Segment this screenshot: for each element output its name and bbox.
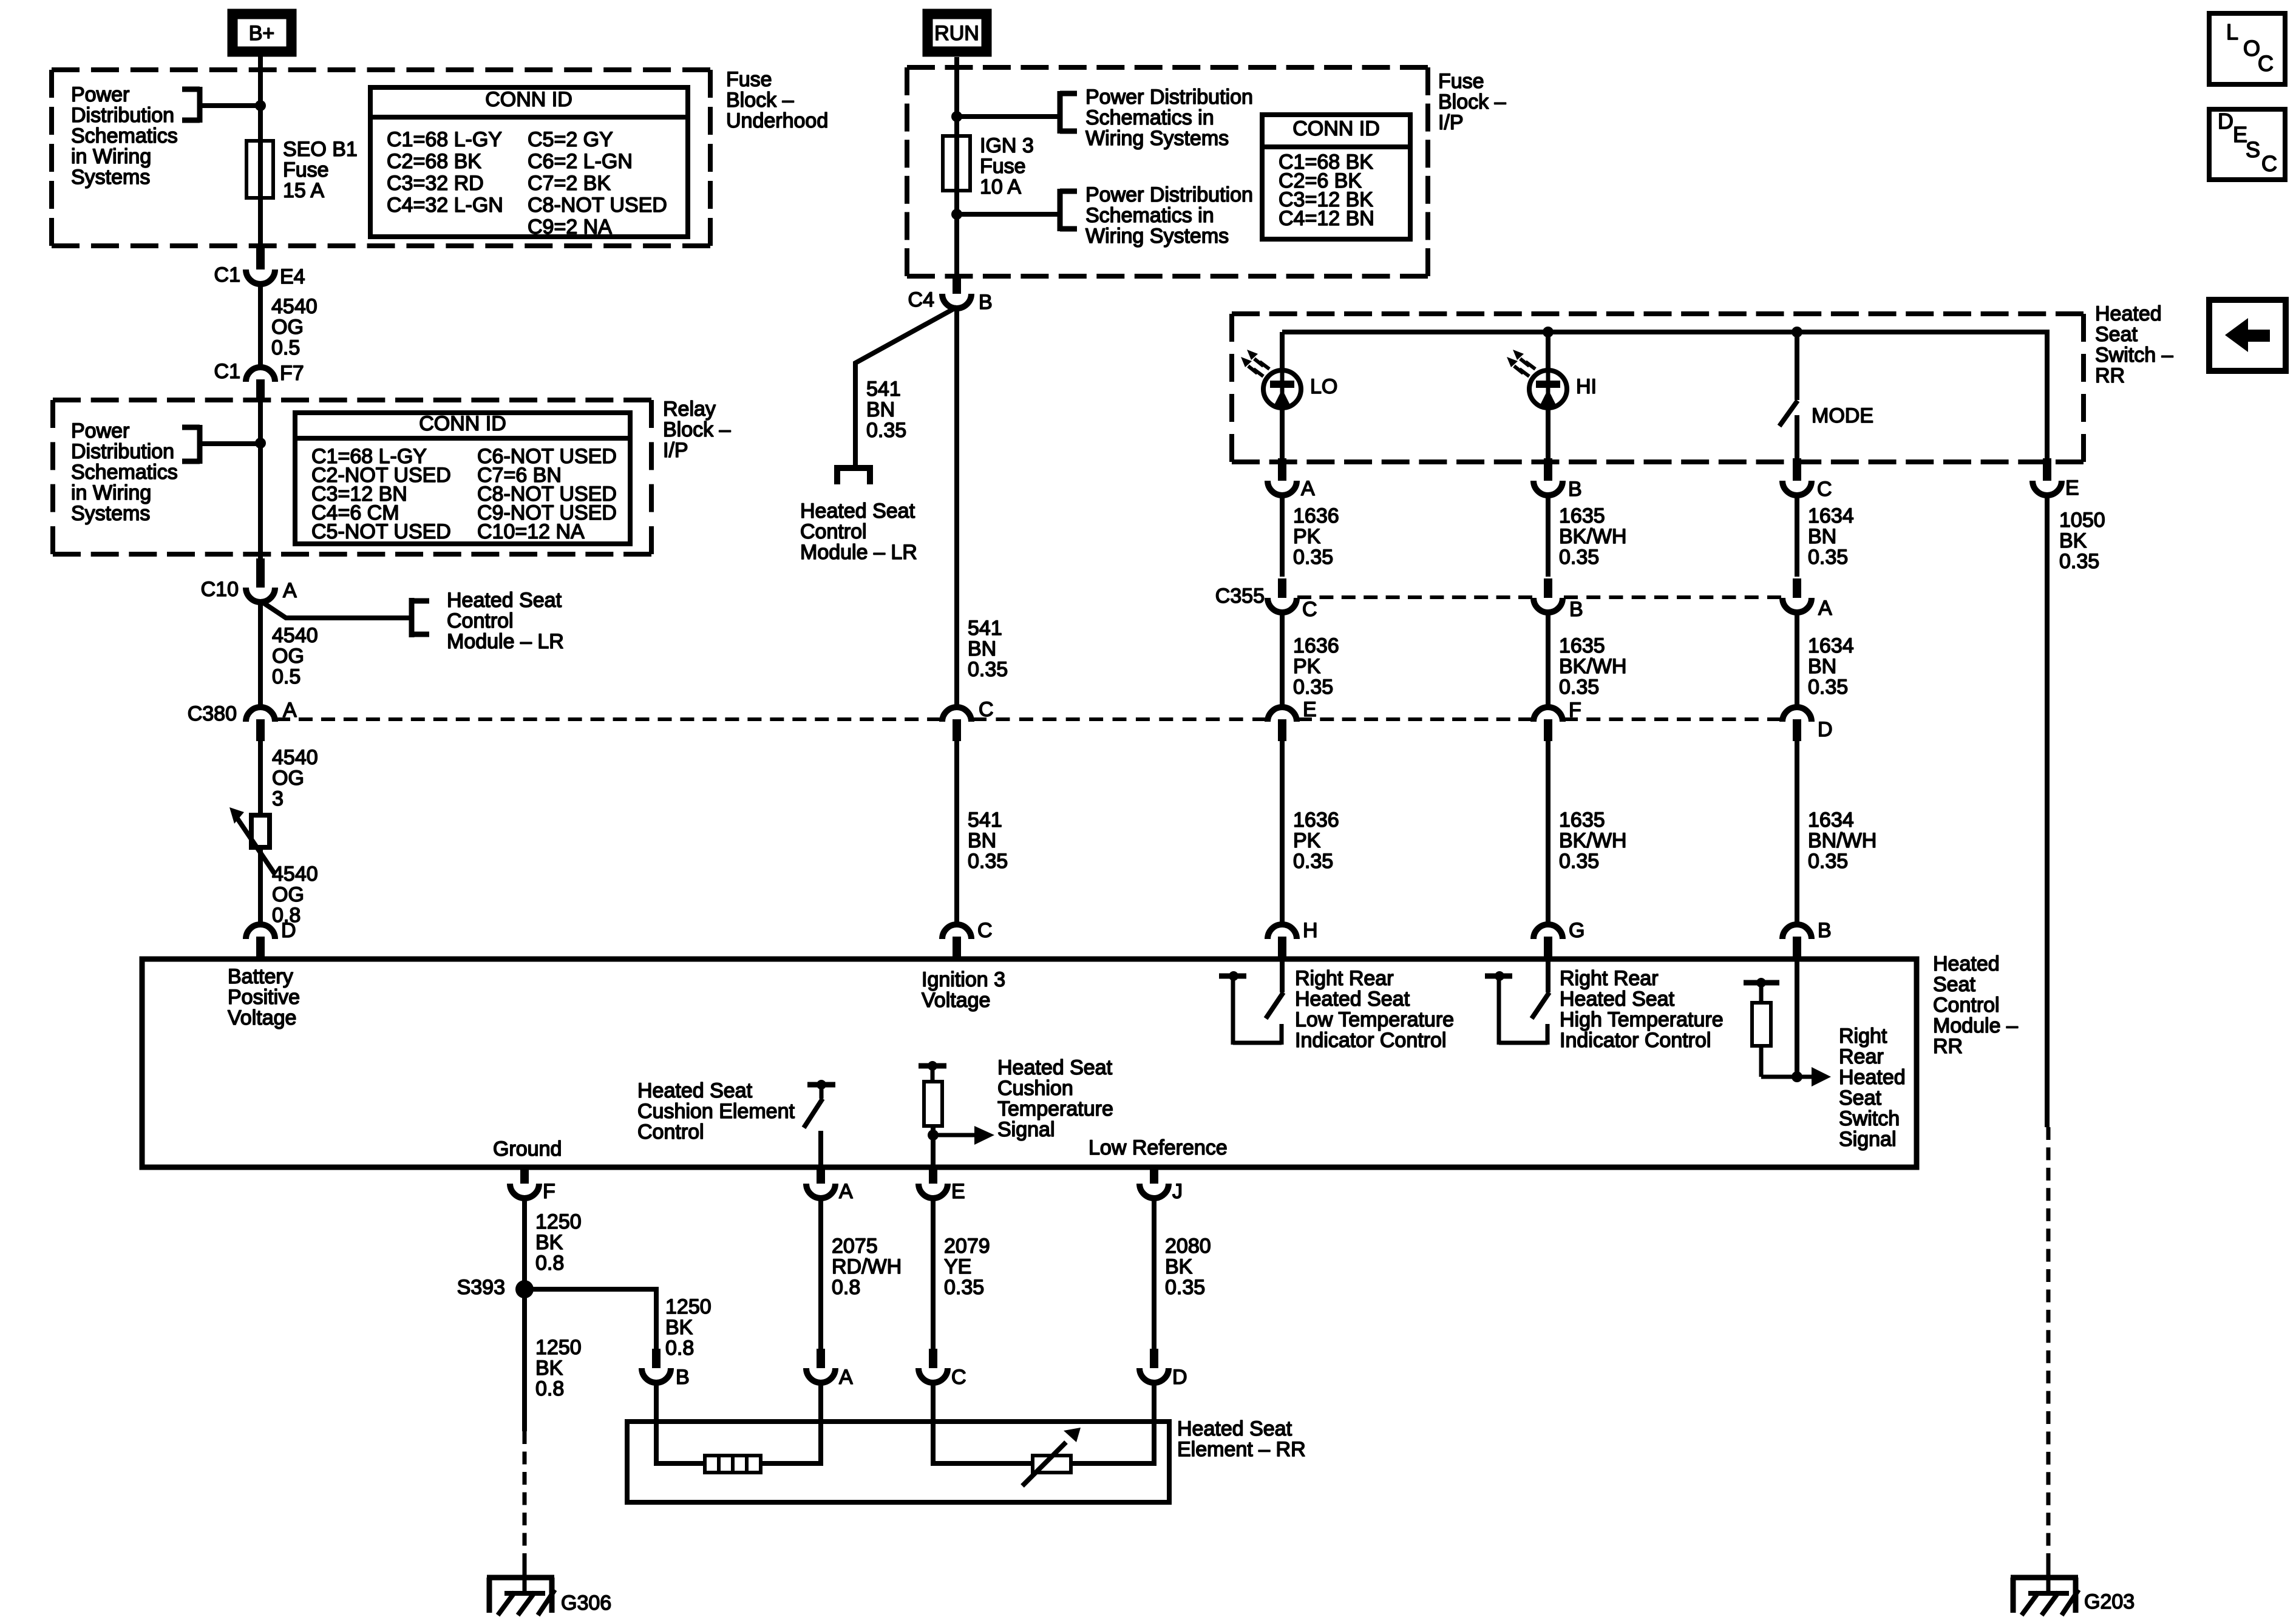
dashed box Heated Seat Switch - RR	[1232, 314, 2084, 462]
bracket Power Distribution (lower I/P)	[1060, 189, 1077, 231]
label C355	[1215, 585, 1265, 608]
svg-text:LO: LO	[1310, 375, 1337, 398]
switch heated seat cushion element control	[804, 1080, 835, 1128]
wire to power-distribution bracket (upper I/P)	[957, 114, 1060, 119]
svg-text:Seat: Seat	[2095, 323, 2138, 346]
svg-text:C8-NOT USED: C8-NOT USED	[528, 194, 667, 217]
svg-text:B: B	[1568, 478, 1582, 501]
label A (at C380)	[283, 699, 297, 722]
label Right Rear Heated Seat Switch Signal	[1839, 1025, 1906, 1151]
label A (element)	[839, 1366, 853, 1389]
svg-text:in Wiring: in Wiring	[71, 481, 151, 504]
svg-text:C2=68 BK: C2=68 BK	[387, 150, 481, 173]
label IGN 3 Fuse 10 A	[980, 134, 1034, 198]
diagonal wire C4 to module-LR stub	[855, 307, 957, 465]
wire E down right side	[2045, 494, 2050, 1127]
svg-text:B: B	[1569, 598, 1583, 621]
connector F (module ground)	[510, 1167, 539, 1198]
svg-text:1636: 1636	[1293, 634, 1339, 657]
svg-text:C1: C1	[214, 263, 240, 286]
label 1636 PK 0.35 (to module)	[1293, 808, 1339, 873]
svg-text:Rear: Rear	[1839, 1045, 1884, 1068]
svg-text:0.35: 0.35	[1559, 850, 1599, 873]
label S393	[457, 1276, 505, 1299]
label SEO B1 Fuse 15 A	[283, 138, 358, 202]
ground G306	[487, 1566, 555, 1615]
svg-text:2079: 2079	[944, 1235, 990, 1258]
svg-text:C5=2 GY: C5=2 GY	[528, 128, 613, 151]
svg-text:C10: C10	[201, 578, 239, 601]
wire element C lead	[933, 1381, 1033, 1463]
label D (module top)	[281, 919, 296, 942]
svg-text:PK: PK	[1293, 829, 1321, 852]
connector D (module battery feed)	[246, 924, 275, 961]
ground G203	[2011, 1566, 2079, 1615]
svg-text:BK: BK	[535, 1231, 563, 1254]
svg-text:1250: 1250	[535, 1210, 582, 1233]
svg-text:Block –: Block –	[663, 418, 731, 441]
wire C355-C to connector E	[1280, 611, 1285, 710]
svg-text:Temperature: Temperature	[997, 1097, 1113, 1120]
label 1636 PK 0.35 (switch-C355)	[1293, 504, 1339, 569]
resistor cushion temperature sensor	[924, 1066, 942, 1126]
connector C355 A	[1782, 578, 1812, 612]
label E (module bottom)	[951, 1180, 965, 1203]
label Power Distribution Schematics in Wiring Systems (underhood)	[71, 83, 178, 189]
connector G (module top)	[1533, 924, 1563, 961]
label H (module top)	[1303, 919, 1318, 942]
label 2080 BK 0.35	[1165, 1235, 1211, 1299]
wire B+ to SEO B1 fuse	[258, 56, 263, 141]
svg-text:Module – LR: Module – LR	[447, 630, 564, 653]
wire C355-A to connector D	[1795, 611, 1799, 710]
svg-text:C1: C1	[214, 360, 240, 383]
svg-text:G: G	[1569, 919, 1584, 942]
label Heated Seat Element - RR	[1177, 1417, 1306, 1461]
svg-text:Cushion Element: Cushion Element	[637, 1100, 795, 1123]
dashed box Fuse Block - Underhood	[52, 70, 710, 246]
label C1 (at F7)	[214, 360, 240, 383]
connector C10 A	[246, 558, 275, 602]
svg-text:3: 3	[272, 787, 284, 810]
svg-text:BK/WH: BK/WH	[1559, 829, 1626, 852]
svg-text:Control: Control	[447, 609, 514, 632]
svg-text:10 A: 10 A	[980, 175, 1021, 198]
label A (switch)	[1301, 477, 1315, 500]
pull-up bar for switch signal resistor	[1744, 978, 1779, 988]
svg-text:Power Distribution: Power Distribution	[1085, 86, 1253, 109]
svg-text:C: C	[1302, 598, 1317, 621]
svg-text:0.35: 0.35	[1559, 546, 1599, 569]
splice S393	[515, 1280, 534, 1298]
wire inside fuse IGN3	[954, 136, 959, 191]
label E (switch)	[2065, 476, 2079, 500]
svg-text:0.8: 0.8	[535, 1377, 564, 1400]
label F (module ground)	[543, 1180, 555, 1203]
svg-text:CONN ID: CONN ID	[485, 88, 572, 111]
junction dot cushion temperature signal	[928, 1130, 939, 1141]
svg-text:C6=2 L-GN: C6=2 L-GN	[528, 150, 633, 173]
table CONN ID (I/P fuse block)	[1262, 115, 1410, 239]
svg-text:Switch: Switch	[1839, 1107, 1900, 1130]
photon arrows at HI	[1507, 350, 1535, 376]
svg-text:1635: 1635	[1559, 634, 1605, 657]
svg-text:C1=68 L-GY: C1=68 L-GY	[387, 128, 502, 151]
svg-text:2075: 2075	[832, 1235, 878, 1258]
connector E (switch)	[2033, 458, 2062, 495]
svg-text:A: A	[839, 1180, 853, 1203]
svg-text:BK: BK	[535, 1357, 563, 1380]
svg-text:BN: BN	[1808, 655, 1836, 678]
svg-text:Power: Power	[71, 419, 129, 442]
svg-text:BK: BK	[2059, 529, 2087, 552]
svg-text:H: H	[1303, 919, 1318, 942]
dashed wire E to G203	[2046, 1127, 2051, 1566]
label 541 BN 0.35 (lower)	[968, 808, 1008, 873]
svg-text:C: C	[2258, 51, 2274, 76]
svg-text:A: A	[1301, 477, 1315, 500]
svg-text:Low Reference: Low Reference	[1089, 1136, 1228, 1159]
label HI	[1576, 375, 1597, 398]
svg-text:Wiring Systems: Wiring Systems	[1085, 225, 1229, 248]
svg-text:CONN ID: CONN ID	[419, 412, 506, 435]
signal arrow right rear heated seat switch signal	[1761, 1067, 1831, 1086]
wire C4 to connector C (C380 line)	[954, 307, 959, 710]
bracket to Power Distribution Schematics (underhood)	[182, 87, 200, 123]
fuse IGN 3 10A	[943, 136, 970, 191]
svg-text:Signal: Signal	[997, 1118, 1055, 1141]
label D (element)	[1172, 1366, 1187, 1389]
svg-text:C: C	[977, 919, 993, 942]
connector D (C380 line)	[1782, 707, 1812, 741]
svg-text:Distribution: Distribution	[71, 440, 174, 463]
label 1634 BN 0.35 (C355-C380)	[1808, 634, 1854, 699]
svg-text:MODE: MODE	[1812, 404, 1873, 427]
svg-text:in Wiring: in Wiring	[71, 145, 151, 168]
svg-text:IGN 3: IGN 3	[980, 134, 1034, 157]
svg-text:C355: C355	[1215, 585, 1265, 608]
label E (C380 line)	[1303, 698, 1317, 721]
svg-text:Heated Seat: Heated Seat	[1295, 988, 1410, 1011]
label Power Distribution Schematics in Wiring Systems (lower I/P)	[1085, 183, 1253, 248]
label B (element)	[676, 1366, 690, 1389]
connector F (C380 line)	[1533, 707, 1563, 741]
svg-text:Voltage: Voltage	[228, 1006, 296, 1029]
svg-text:BN: BN	[968, 829, 996, 852]
svg-text:Indicator Control: Indicator Control	[1560, 1029, 1711, 1052]
svg-text:RD/WH: RD/WH	[832, 1255, 902, 1278]
svg-text:I/P: I/P	[663, 439, 688, 462]
svg-text:D: D	[1818, 718, 1833, 741]
svg-text:I/P: I/P	[1438, 111, 1464, 134]
label C1 (at E4)	[214, 263, 240, 286]
label 4540 OG 0.5 (upper)	[271, 295, 318, 359]
wire HI lamp to connector B	[1546, 408, 1550, 462]
label C380	[188, 702, 237, 725]
svg-text:HI: HI	[1576, 375, 1597, 398]
label C (module top)	[977, 919, 993, 942]
svg-text:Cushion: Cushion	[997, 1077, 1073, 1100]
wire RUN to IGN3 fuse	[954, 57, 959, 136]
svg-text:Underhood: Underhood	[726, 109, 828, 132]
label B (at C4)	[979, 291, 993, 314]
svg-text:Positive: Positive	[228, 986, 300, 1009]
svg-text:B: B	[979, 291, 993, 314]
wire MODE switch feed	[1795, 332, 1799, 400]
svg-text:4540: 4540	[272, 746, 318, 769]
label C (switch)	[1817, 478, 1832, 501]
dashed connector line C355	[1297, 595, 1781, 599]
svg-text:C10=12 NA: C10=12 NA	[477, 520, 585, 543]
table CONN ID (relay block)	[295, 412, 630, 544]
label A (at C355)	[1818, 597, 1832, 620]
svg-text:Heated Seat: Heated Seat	[637, 1079, 753, 1102]
svg-text:541: 541	[968, 617, 1002, 640]
svg-text:1636: 1636	[1293, 504, 1339, 527]
svg-text:Heated: Heated	[2095, 302, 2162, 325]
svg-text:Voltage: Voltage	[922, 989, 990, 1012]
svg-text:Fuse: Fuse	[283, 158, 329, 181]
svg-text:Schematics in: Schematics in	[1085, 106, 1214, 129]
svg-text:CONN ID: CONN ID	[1292, 117, 1380, 140]
junction dot MODE bus	[1792, 327, 1802, 337]
svg-text:A: A	[1818, 597, 1832, 620]
svg-text:C4=32 L-GN: C4=32 L-GN	[387, 194, 503, 217]
label G (module top)	[1569, 919, 1584, 942]
svg-text:F: F	[1569, 699, 1581, 722]
svg-text:Relay: Relay	[663, 398, 716, 421]
resistor switch signal pull-up	[1752, 983, 1771, 1077]
svg-text:Schematics in: Schematics in	[1085, 204, 1214, 227]
svg-text:S: S	[2246, 137, 2260, 162]
svg-text:0.35: 0.35	[1808, 850, 1848, 873]
svg-text:Wiring Systems: Wiring Systems	[1085, 127, 1229, 150]
svg-text:E4: E4	[280, 265, 305, 288]
connector C (module ignition input)	[942, 924, 971, 961]
label Low Reference	[1089, 1136, 1228, 1159]
svg-text:Schematics: Schematics	[71, 124, 178, 147]
svg-text:Distribution: Distribution	[71, 104, 174, 127]
wire fusible link to connector D	[258, 847, 263, 926]
label 1635 BK/WH 0.35 (C355-C380)	[1559, 634, 1626, 699]
wire junction to power-distribution bracket	[200, 103, 260, 108]
label G306	[561, 1592, 611, 1615]
junction dot in relay block	[255, 438, 266, 449]
svg-text:Control: Control	[637, 1120, 704, 1144]
connector E (C380 line)	[1268, 707, 1297, 741]
label 1634 BN 0.35 (switch-C355)	[1808, 504, 1854, 569]
label A (at C10)	[283, 579, 297, 602]
svg-text:1634: 1634	[1808, 504, 1854, 527]
svg-text:E: E	[1303, 698, 1317, 721]
wire C to C355	[1795, 494, 1799, 577]
svg-text:1636: 1636	[1293, 808, 1339, 832]
junction dot above IGN3 fuse	[951, 111, 962, 122]
label J (module bottom)	[1172, 1180, 1183, 1203]
box Heated Seat Element - RR	[627, 1422, 1169, 1502]
label 1050 BK 0.35	[2059, 509, 2105, 573]
bracket to Power Distribution Schematics (relay)	[182, 425, 200, 464]
svg-text:0.5: 0.5	[272, 665, 301, 688]
svg-text:1635: 1635	[1559, 504, 1605, 527]
junction dot on B+ feed	[255, 100, 266, 111]
label Heated Seat Control Module - LR (lower)	[800, 500, 917, 564]
svg-text:Module – LR: Module – LR	[800, 541, 917, 564]
svg-text:BK/WH: BK/WH	[1559, 525, 1626, 548]
wire S393 to G306 (solid)	[522, 1289, 527, 1431]
svg-text:High Temperature: High Temperature	[1560, 1008, 1724, 1031]
label C (at C355)	[1302, 598, 1317, 621]
wire sensor to connector E	[931, 1126, 936, 1167]
label 1635 BK/WH 0.35 (to module)	[1559, 808, 1626, 873]
svg-text:OG: OG	[271, 316, 304, 339]
connector B (switch)	[1533, 458, 1563, 495]
label D (C380 line)	[1818, 718, 1833, 741]
connector E (module temp signal)	[919, 1167, 948, 1198]
wire module H internal	[1280, 961, 1285, 992]
fuse SEO B1 15A	[246, 141, 273, 198]
label Right Rear Heated Seat High Temperature Indicator Control	[1560, 967, 1724, 1052]
svg-text:Power: Power	[71, 83, 129, 106]
svg-text:C: C	[951, 1366, 966, 1389]
svg-text:1634: 1634	[1808, 808, 1854, 832]
label Power Distribution Schematics in Wiring Systems (relay)	[71, 419, 178, 525]
svg-text:1635: 1635	[1559, 808, 1605, 832]
wire E to element	[931, 1197, 936, 1349]
wire C10 to C380	[258, 601, 263, 710]
svg-text:0.35: 0.35	[1293, 850, 1333, 873]
svg-text:L: L	[2226, 19, 2238, 44]
power symbol B+ (battery positive terminal box)	[233, 14, 291, 52]
svg-text:RR: RR	[2095, 364, 2125, 387]
connector C1 F7	[246, 367, 275, 401]
box back-arrow	[2209, 300, 2286, 371]
svg-text:Element – RR: Element – RR	[1177, 1438, 1306, 1461]
svg-text:Power Distribution: Power Distribution	[1085, 183, 1253, 206]
junction dot below IGN3 fuse	[951, 209, 962, 220]
svg-text:B+: B+	[249, 22, 275, 45]
svg-text:Battery: Battery	[228, 965, 293, 988]
svg-text:Seat: Seat	[1933, 973, 1975, 996]
svg-text:C: C	[979, 698, 994, 721]
svg-text:RR: RR	[1933, 1035, 1963, 1058]
label C4	[908, 288, 934, 311]
wire IGN3 fuse to lower junction	[954, 191, 959, 274]
svg-text:BN: BN	[968, 637, 996, 660]
svg-text:PK: PK	[1293, 525, 1321, 548]
connector D (element)	[1140, 1349, 1169, 1383]
wire connector C to module connector C	[954, 741, 959, 926]
wire A to element	[818, 1197, 823, 1349]
wire junction to connector C10	[258, 443, 263, 561]
bracket to Heated Seat Control Module - LR (upper)	[412, 598, 429, 637]
terminal bracket Heated Seat Control Module - LR (lower)	[834, 468, 873, 484]
wire LO lamp to connector A	[1280, 408, 1285, 462]
wire switch internal bus	[1282, 332, 2047, 460]
svg-text:0.35: 0.35	[2059, 550, 2099, 573]
svg-text:0.5: 0.5	[271, 336, 300, 359]
wire E-line to module H	[1280, 741, 1285, 926]
box DESC	[2209, 109, 2285, 180]
diagonal wire C10 to module-LR branch	[260, 601, 412, 618]
wire HI lamp feed	[1546, 332, 1550, 370]
svg-text:E: E	[2065, 476, 2079, 500]
label 1250 BK 0.8 (to ground)	[535, 1336, 582, 1400]
svg-text:PK: PK	[1293, 655, 1321, 678]
connector C380 A	[246, 707, 275, 741]
svg-text:0.35: 0.35	[1165, 1276, 1205, 1299]
indicator lamp HI (LED)	[1529, 370, 1567, 408]
label 4540 OG 0.5 (lower)	[272, 624, 318, 688]
wire fuse to connector C1 E4	[258, 198, 263, 250]
wire MODE switch to connector C	[1795, 415, 1799, 462]
label 1250 BK 0.8 (module to S393)	[535, 1210, 582, 1275]
wire thermistor to element D lead	[1071, 1381, 1154, 1463]
transistor-switch high temp indicator control	[1485, 971, 1549, 1045]
label Heated Seat Switch - RR	[2095, 302, 2173, 387]
svg-text:Signal: Signal	[1839, 1128, 1897, 1151]
svg-text:Switch –: Switch –	[2095, 344, 2173, 367]
photon arrows at LO	[1241, 350, 1269, 376]
indicator lamp LO (LED)	[1263, 370, 1301, 408]
svg-text:0.8: 0.8	[832, 1276, 860, 1299]
svg-text:C4=12 BN: C4=12 BN	[1279, 207, 1374, 230]
svg-text:J: J	[1172, 1180, 1183, 1203]
svg-text:0.35: 0.35	[1559, 676, 1599, 699]
connector C4 B	[942, 274, 971, 308]
svg-text:G203: G203	[2084, 1590, 2135, 1613]
label F7	[280, 362, 304, 385]
label 2075 RD/WH 0.8	[832, 1235, 902, 1299]
connector J (module low reference)	[1140, 1167, 1169, 1198]
label B (at C355)	[1569, 598, 1583, 621]
connector A (switch)	[1268, 458, 1297, 495]
wire C380 to fusible link	[258, 741, 263, 815]
label Heated Seat Cushion Element Control	[637, 1079, 795, 1144]
label C (element)	[951, 1366, 966, 1389]
svg-text:C5-NOT USED: C5-NOT USED	[311, 520, 451, 543]
wire A to C355	[1280, 494, 1285, 577]
connector B (module top)	[1782, 924, 1812, 961]
wire C1-E4 to C1-F7	[258, 283, 263, 369]
svg-text:0.35: 0.35	[1808, 546, 1848, 569]
table CONN ID (underhood fuse block)	[370, 87, 688, 239]
connector A (element)	[806, 1349, 835, 1383]
svg-text:0.35: 0.35	[866, 419, 906, 442]
label LO	[1310, 375, 1337, 398]
wire C355-B to connector F	[1546, 611, 1550, 710]
svg-text:Ignition 3: Ignition 3	[922, 968, 1005, 991]
svg-text:OG: OG	[272, 645, 304, 668]
svg-text:BK: BK	[1165, 1255, 1193, 1278]
label 541 BN 0.35 (middle)	[968, 617, 1008, 681]
svg-text:A: A	[839, 1366, 853, 1389]
svg-text:G306: G306	[561, 1592, 611, 1615]
svg-text:1634: 1634	[1808, 634, 1854, 657]
wire coil to element A lead	[761, 1381, 821, 1463]
label C (C380 line)	[979, 698, 994, 721]
svg-text:4540: 4540	[272, 624, 318, 647]
svg-text:C7=2 BK: C7=2 BK	[528, 172, 611, 195]
svg-text:4540: 4540	[271, 295, 318, 318]
svg-text:Control: Control	[800, 520, 867, 543]
svg-text:Heated: Heated	[1839, 1066, 1906, 1089]
svg-text:C: C	[2261, 151, 2277, 176]
svg-text:Module –: Module –	[1933, 1014, 2018, 1037]
label 4540 OG 3	[272, 746, 318, 810]
connector C355 B	[1533, 578, 1563, 612]
label Fuse Block - Underhood	[726, 68, 828, 132]
